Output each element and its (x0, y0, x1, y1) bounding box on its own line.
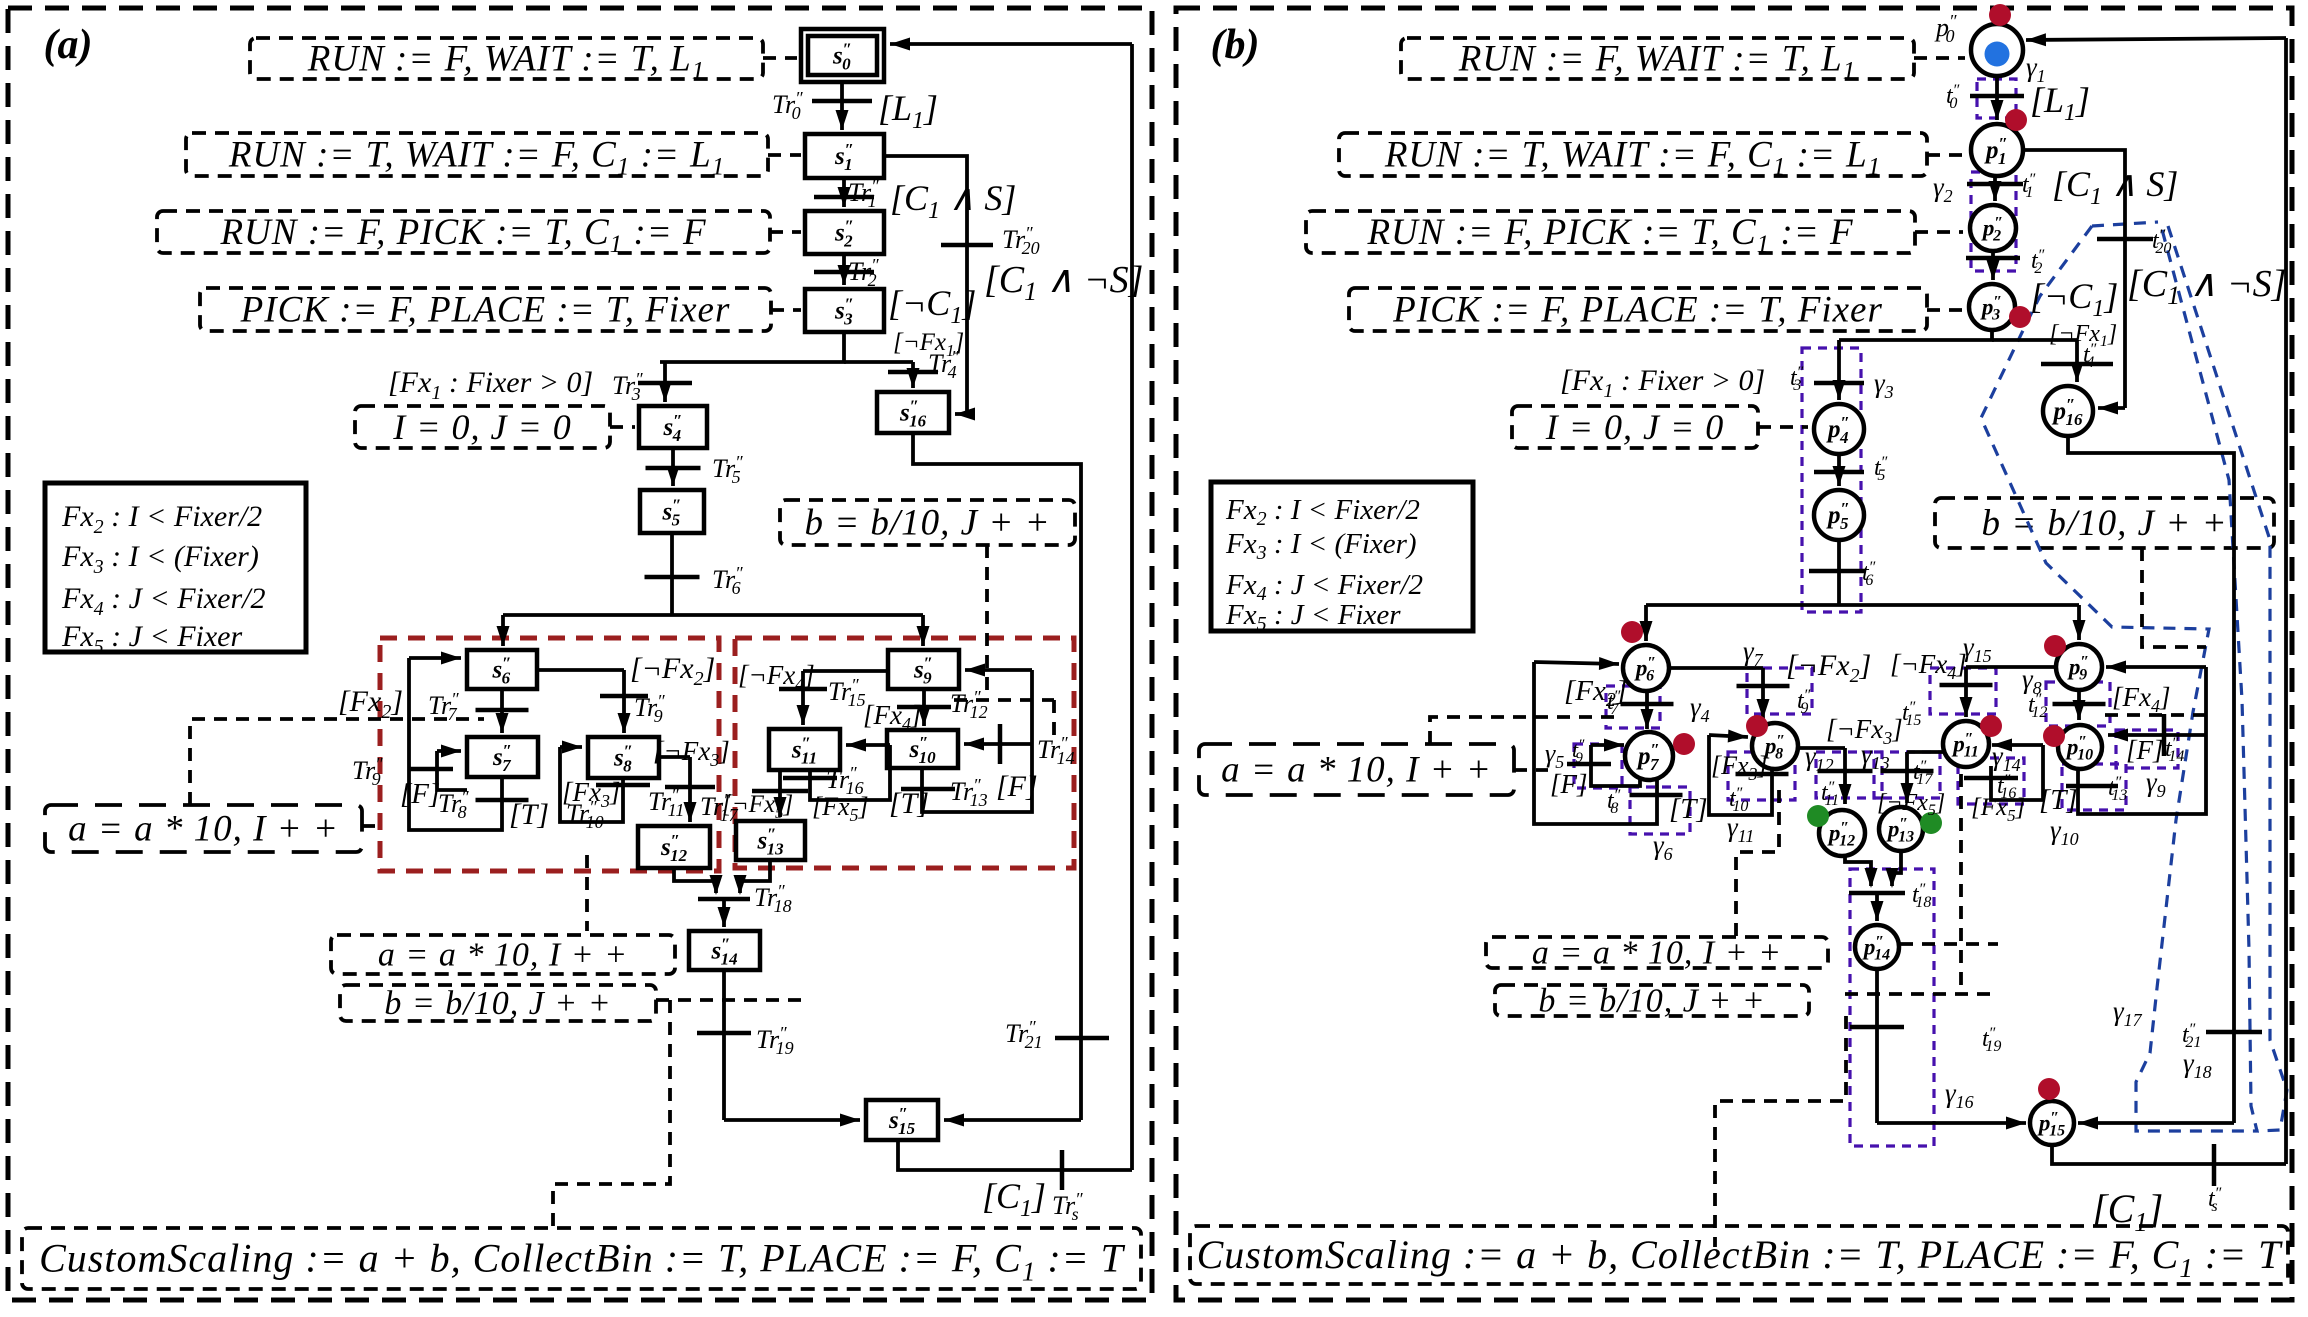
svg-text:s″​4​: s″​4​ (662, 411, 682, 445)
svg-text:s″​7​: s″​7​ (492, 741, 512, 775)
svg-text:PICK := F, PLACE := T, Fixer: PICK := F, PLACE := T, Fixer (1392, 290, 1883, 331)
svg-text:RUN := F, WAIT := T, L1​: RUN := F, WAIT := T, L1​ (1458, 39, 1856, 85)
svg-text:(a): (a) (44, 22, 93, 68)
svg-text:Tr″​0​: Tr″​0​ (772, 88, 803, 123)
svg-text:s″​1​: s″​1​ (834, 140, 854, 174)
svg-text:s″​3​: s″​3​ (834, 295, 854, 329)
svg-text:[¬C1​]: [¬C1​] (2030, 276, 2118, 322)
svg-text:[¬Fx5​]: [¬Fx5​] (1877, 790, 1945, 819)
svg-text:[C1​ ∧ S]: [C1​ ∧ S] (890, 178, 1016, 224)
svg-text:p″​0​: p″​0​ (1934, 11, 1957, 46)
svg-text:b = b/10, J + +: b = b/10, J + + (1538, 983, 1765, 1020)
svg-text:[F]: [F] (2126, 735, 2164, 765)
svg-text:Tr″​s​: Tr″​s​ (1052, 1189, 1083, 1224)
svg-text:Tr″​2​: Tr″​2​ (848, 255, 879, 290)
svg-text:Tr″​9​: Tr″​9​ (634, 691, 665, 726)
svg-text:[T]: [T] (2039, 784, 2078, 816)
svg-text:[¬C1​]: [¬C1​] (888, 283, 976, 329)
svg-text:Tr″​5​: Tr″​5​ (712, 452, 743, 487)
svg-text:Fx4​ : J < Fixer/2: Fx4​ : J < Fixer/2 (61, 582, 266, 620)
svg-text:Fx5​ : J < Fixer: Fx5​ : J < Fixer (61, 620, 242, 658)
svg-text:RUN := F, WAIT := T, L1​: RUN := F, WAIT := T, L1​ (307, 39, 705, 85)
svg-text:Fx3​ : I < (Fixer): Fx3​ : I < (Fixer) (1225, 528, 1417, 564)
svg-text:b = b/10, J + +: b = b/10, J + + (804, 503, 1050, 544)
svg-text:Fx5​ : J < Fixer: Fx5​ : J < Fixer (1225, 599, 1401, 635)
svg-text:Tr″​8​: Tr″​8​ (438, 787, 469, 822)
svg-text:Tr″​1​: Tr″​1​ (848, 176, 879, 211)
svg-text:I = 0, J = 0: I = 0, J = 0 (392, 407, 572, 447)
svg-text:[Fx1​ : Fixer > 0]: [Fx1​ : Fixer > 0] (1560, 364, 1765, 402)
svg-text:CustomScaling := a + b, Collec: CustomScaling := a + b, CollectBin := T,… (39, 1236, 1126, 1287)
svg-text:p″​9​: p″​9​ (2067, 653, 2089, 683)
svg-text:[L1​]: [L1​] (878, 88, 938, 134)
svg-text:Tr″​6​: Tr″​6​ (712, 563, 743, 598)
svg-text:p″​7​: p″​7​ (1636, 740, 1660, 774)
svg-text:p″​2​: p″​2​ (1981, 214, 2003, 244)
svg-text:Fx2​ : I < Fixer/2: Fx2​ : I < Fixer/2 (61, 500, 262, 538)
svg-text:a = a * 10, I + +: a = a * 10, I + + (68, 809, 339, 850)
svg-text:s″​0​: s″​0​ (832, 40, 852, 74)
svg-text:s″​9​: s″​9​ (913, 654, 933, 688)
svg-text:b = b/10, J + +: b = b/10, J + + (384, 985, 611, 1022)
svg-text:[¬Fx5​]: [¬Fx5​] (722, 791, 793, 822)
svg-text:[L1​]: [L1​] (2030, 80, 2090, 126)
svg-text:[C1​ ∧ ¬S]: [C1​ ∧ ¬S] (2127, 263, 2286, 310)
svg-text:[C1​ ∧ S]: [C1​ ∧ S] (2052, 164, 2178, 210)
svg-text:a = a * 10, I + +: a = a * 10, I + + (1221, 750, 1492, 791)
svg-text:[T]: [T] (1669, 793, 1708, 825)
svg-text:[F]: [F] (400, 778, 440, 810)
svg-text:p″​5​: p″​5​ (1826, 499, 1850, 533)
svg-text:[Fx4​]: [Fx4​] (2112, 682, 2171, 716)
svg-text:Tr″​9​: Tr″​9​ (352, 754, 383, 789)
svg-text:s″​6​: s″​6​ (491, 654, 511, 688)
svg-text:RUN := F, PICK := T, C1​ := F: RUN := F, PICK := T, C1​ := F (219, 212, 706, 258)
svg-text:[C1​ ∧ ¬S]: [C1​ ∧ ¬S] (984, 259, 1143, 306)
svg-text:[Fx3​]: [Fx3​] (1711, 751, 1768, 784)
svg-text:Tr″​4​: Tr″​4​ (928, 347, 959, 382)
svg-text:s″​8​: s″​8​ (613, 742, 633, 776)
svg-text:p″​3​: p″​3​ (1980, 293, 2002, 323)
svg-text:[F]: [F] (1550, 769, 1588, 799)
svg-text:CustomScaling := a + b, Collec: CustomScaling := a + b, CollectBin := T,… (1197, 1232, 2284, 1283)
svg-text:[F]: [F] (996, 770, 1038, 803)
svg-text:[Fx5​]: [Fx5​] (1971, 794, 2025, 825)
svg-text:RUN := T, WAIT := F, C1​ := L1: RUN := T, WAIT := F, C1​ := L1​ (228, 135, 725, 181)
svg-text:[T]: [T] (889, 787, 929, 820)
svg-text:[C1​]: [C1​] (982, 1176, 1046, 1222)
svg-text:PICK := F, PLACE := T, Fixer: PICK := F, PLACE := T, Fixer (240, 290, 731, 331)
svg-text:RUN := F, PICK := T, C1​ := F: RUN := F, PICK := T, C1​ := F (1366, 212, 1853, 258)
svg-text:p″​1​: p″​1​ (1984, 134, 2008, 168)
svg-text:p″​4​: p″​4​ (1826, 413, 1850, 447)
svg-text:[C1​]: [C1​] (2092, 1186, 2163, 1237)
svg-text:(b): (b) (1211, 22, 1260, 68)
svg-text:a = a * 10, I + +: a = a * 10, I + + (378, 937, 628, 974)
svg-text:p″​6​: p″​6​ (1634, 654, 1656, 684)
svg-text:[T]: [T] (509, 798, 549, 831)
svg-text:Tr″​3​: Tr″​3​ (612, 369, 643, 404)
svg-text:[Fx1​ : Fixer > 0]: [Fx1​ : Fixer > 0] (388, 366, 593, 404)
svg-text:s″​2​: s″​2​ (834, 217, 854, 251)
svg-text:Fx3​ : I < (Fixer): Fx3​ : I < (Fixer) (61, 540, 259, 578)
svg-text:a = a * 10, I + +: a = a * 10, I + + (1532, 935, 1782, 972)
svg-text:RUN := T, WAIT := F, C1​ := L1: RUN := T, WAIT := F, C1​ := L1​ (1384, 135, 1881, 181)
svg-text:s″​5​: s″​5​ (661, 496, 681, 530)
svg-text:[Fx5​]: [Fx5​] (812, 792, 869, 825)
svg-text:I = 0, J = 0: I = 0, J = 0 (1545, 407, 1725, 447)
svg-text:b = b/10, J + +: b = b/10, J + + (1981, 503, 2227, 544)
svg-text:[Fx4​]: [Fx4​] (863, 700, 922, 734)
svg-text:Fx2​ : I < Fixer/2: Fx2​ : I < Fixer/2 (1225, 494, 1420, 530)
